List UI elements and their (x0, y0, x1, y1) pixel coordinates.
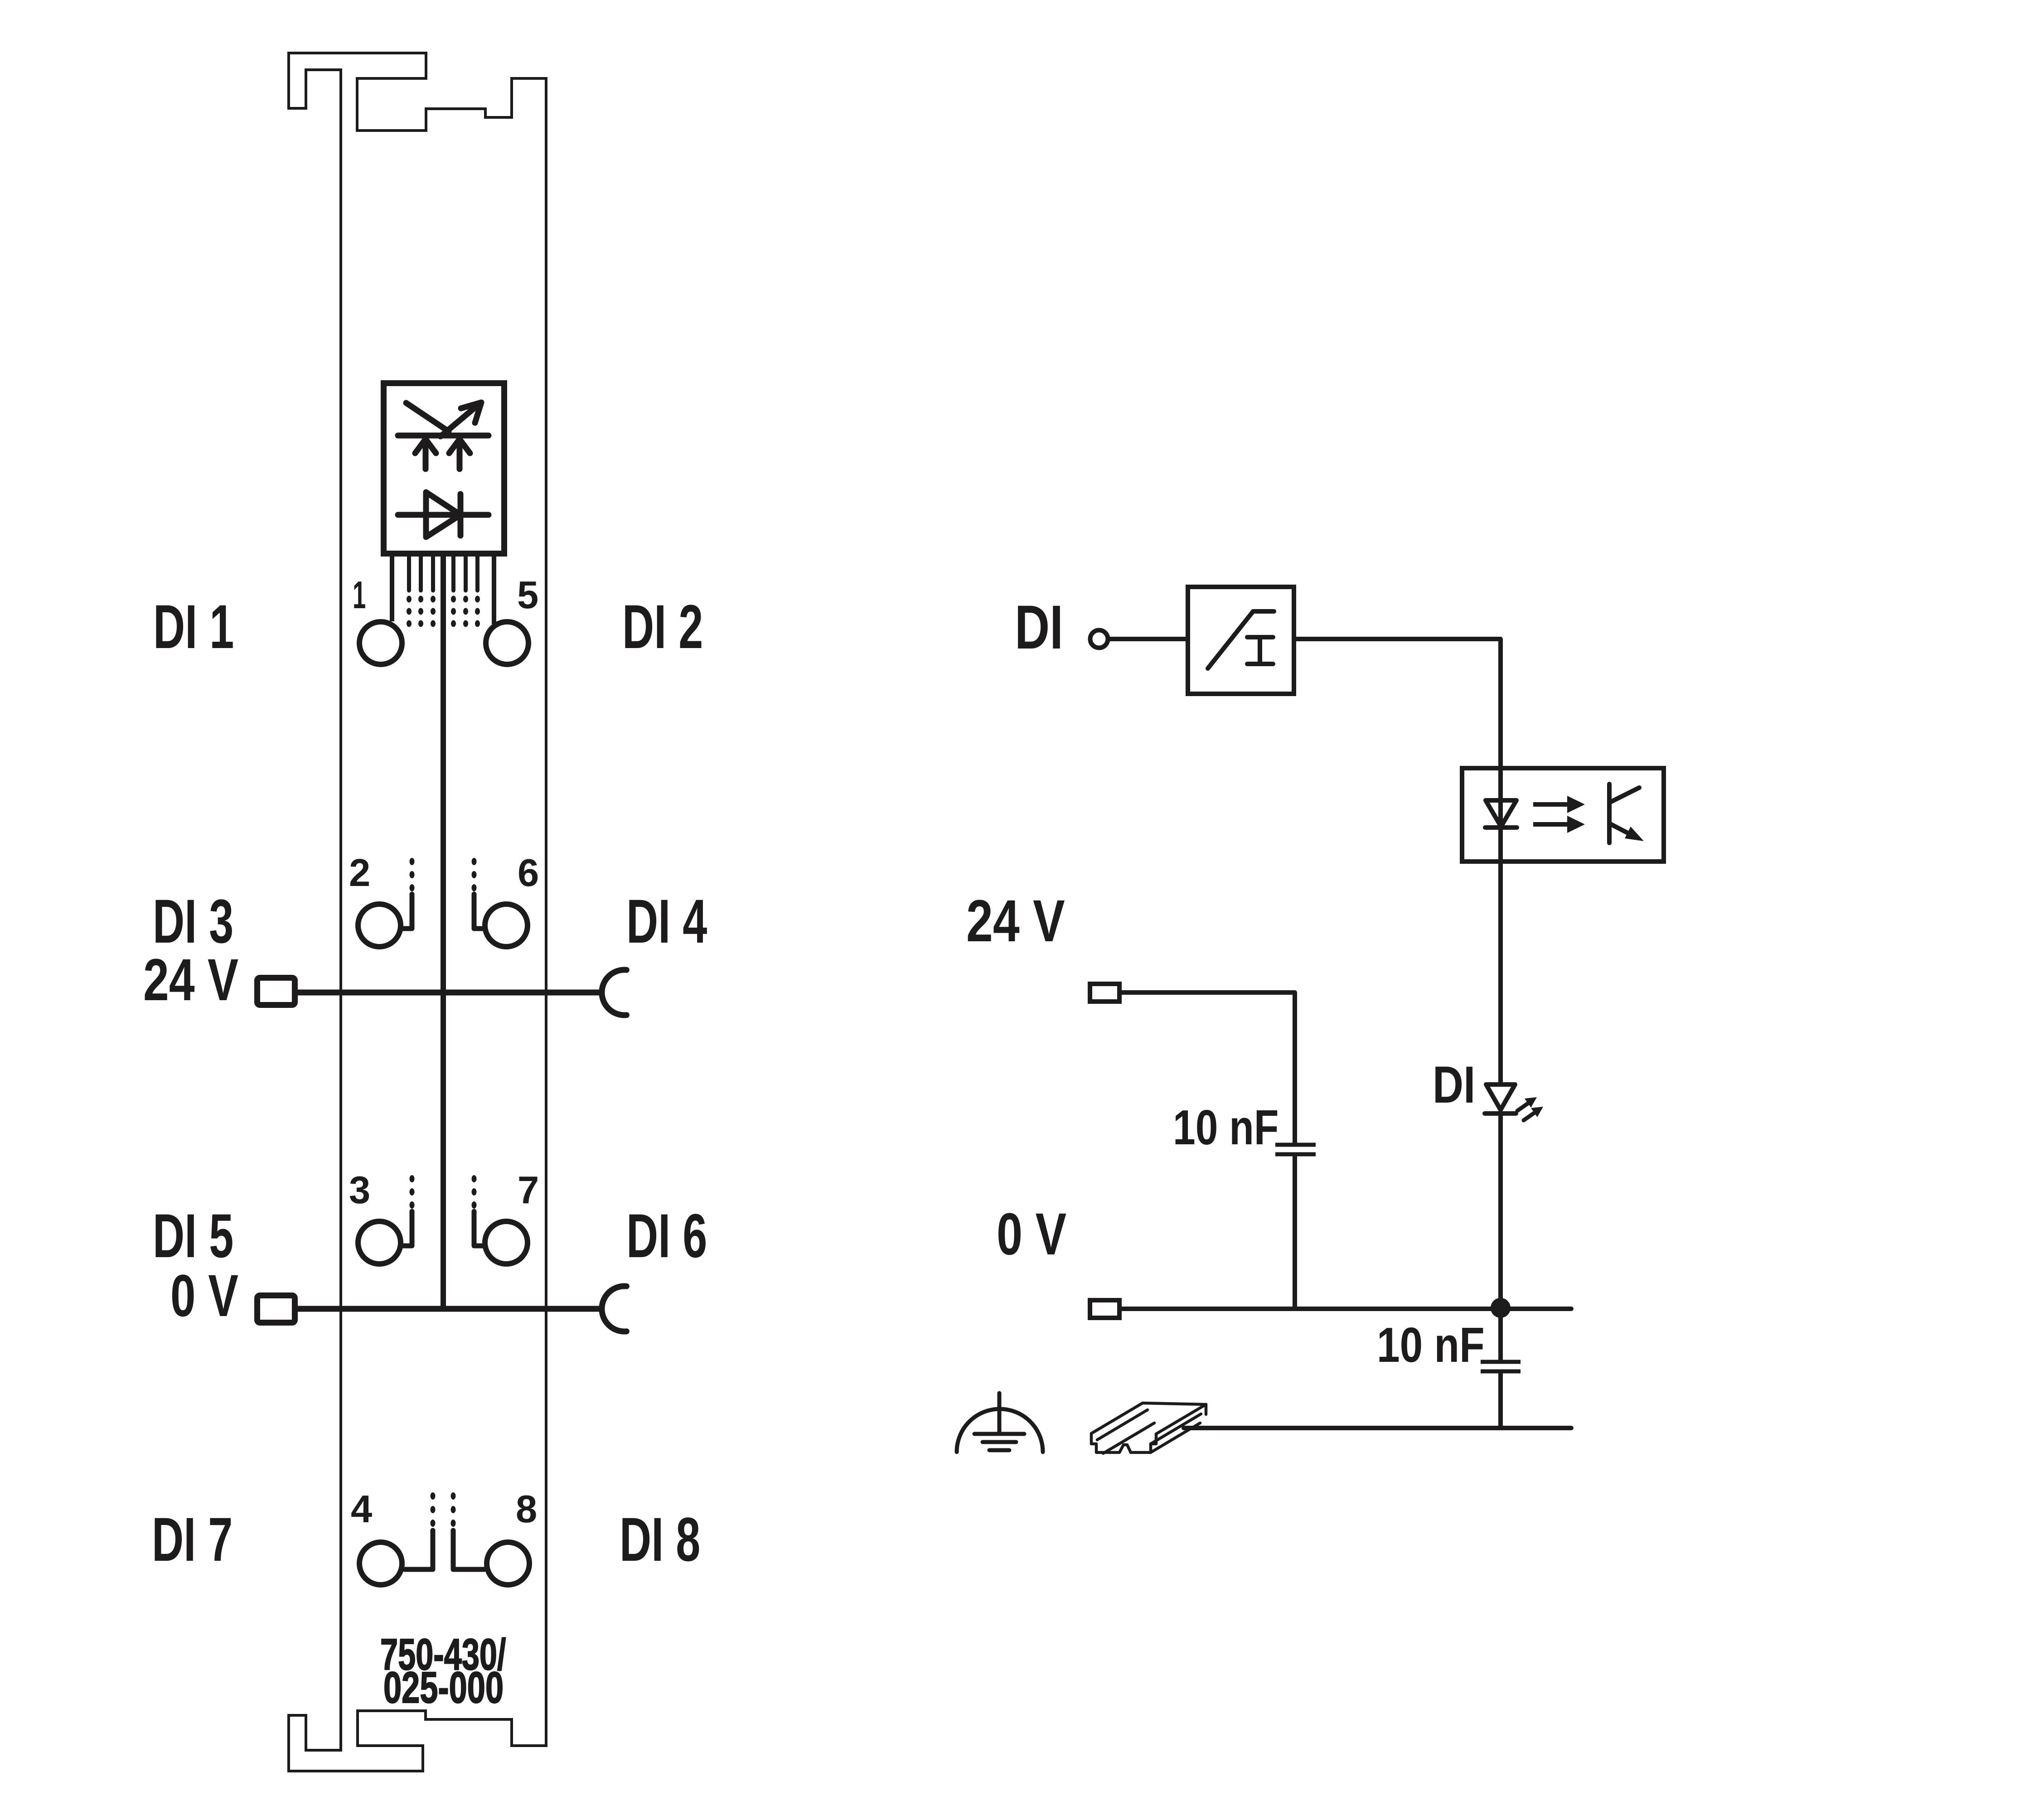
opto phototransistor emitter with arrow (1610, 824, 1634, 836)
svg-text:025-000: 025-000 (383, 1664, 504, 1713)
U1 comb dotted continuation (407, 596, 480, 627)
contact 7 stub wire (474, 1211, 484, 1246)
opto phototransistor collector (1610, 788, 1639, 802)
capacitor C1 lower lead (1293, 1156, 1297, 1309)
svg-text:6: 6 (518, 852, 539, 895)
DI 6 socket arc (602, 1286, 626, 1331)
U1 comb lead 1 (407, 557, 411, 591)
contact 2 circle (358, 904, 401, 947)
U1 comb lead 6 (475, 557, 479, 591)
capacitor C2 10nF plates (1481, 1362, 1521, 1371)
contact 7 circle (485, 1221, 528, 1264)
svg-text:2: 2 (349, 852, 370, 895)
svg-text:DI 4: DI 4 (626, 887, 707, 956)
contact 2 stub wire (402, 894, 412, 929)
svg-text:DI 7: DI 7 (152, 1505, 232, 1574)
indicator LED light arrow 2 (1524, 1111, 1537, 1120)
contact 8 stub wire (453, 1530, 484, 1569)
opto light arrow upper (1533, 796, 1585, 813)
surge suppressor diagonal segment (406, 403, 449, 431)
svg-text:10 nF: 10 nF (1377, 1317, 1485, 1373)
24V field terminal pad (257, 978, 295, 1005)
contact 4 dotted wire (431, 1492, 436, 1527)
junction node (1491, 1298, 1511, 1318)
opto-coupler block U1 (384, 383, 504, 554)
contact 6 circle (485, 904, 528, 947)
0V rail wire (1119, 1307, 1571, 1311)
surge suppressor right up-arrow (449, 439, 470, 469)
svg-text:0 V: 0 V (997, 1200, 1066, 1267)
svg-text:5: 5 (517, 574, 538, 617)
diode D1 cathode bar (458, 494, 464, 536)
indicator LED DI triangle (1486, 1084, 1515, 1110)
svg-text:DI: DI (1433, 1056, 1475, 1114)
diode D1 bar line (398, 512, 489, 518)
opto LED cathode bar (1485, 825, 1517, 830)
opto LED triangle (1486, 800, 1516, 827)
capacitor C1 10nF plates (1275, 1145, 1316, 1154)
svg-text:24 V: 24 V (143, 947, 238, 1013)
contact 7 dotted wire (472, 1175, 477, 1209)
opto light arrow lower (1533, 816, 1585, 833)
0V field terminal pad (257, 1296, 295, 1323)
capacitor C2 lower lead (1498, 1373, 1503, 1428)
svg-text:DI 2: DI 2 (622, 592, 703, 662)
svg-text:4: 4 (351, 1488, 372, 1531)
wire DI terminal to filter (1110, 637, 1186, 641)
svg-text:DI 1: DI 1 (153, 592, 234, 662)
svg-text:8: 8 (516, 1488, 537, 1531)
surge suppressor breakover arrow head (461, 402, 481, 423)
wire from U1 to contact 1 (390, 557, 394, 621)
svg-text:DI 6: DI 6 (626, 1201, 707, 1271)
module outline 750-430 bus terminal body (289, 53, 546, 1771)
filter ramp symbol (1208, 611, 1274, 668)
24V terminal pad (right) (1090, 984, 1119, 1002)
internal bus wire (center) (441, 557, 446, 1312)
contact 4 circle (359, 1542, 402, 1585)
contact 5 circle (486, 622, 528, 664)
indicator LED DI cathode bar (1485, 1111, 1516, 1116)
0V terminal pad (right) (1090, 1300, 1119, 1318)
contact 3 dotted wire (410, 1175, 415, 1209)
24V wire to capacitor (1119, 992, 1295, 1143)
svg-text:1: 1 (353, 573, 366, 616)
svg-text:DI: DI (1015, 593, 1063, 662)
svg-text:7: 7 (518, 1169, 539, 1212)
24V power rail wire (298, 990, 602, 996)
U1 comb lead 5 (464, 557, 468, 591)
DI 4 socket arc (602, 970, 626, 1015)
earth ground symbol (957, 1409, 1043, 1452)
contact 3 circle (358, 1221, 401, 1264)
surge suppressor symbol bar (398, 433, 489, 439)
svg-text:0 V: 0 V (170, 1263, 238, 1329)
svg-text:DI 8: DI 8 (620, 1505, 700, 1574)
0V power rail wire (298, 1306, 602, 1312)
wire filter to opto-coupler (1296, 639, 1501, 766)
svg-text:24 V: 24 V (966, 888, 1065, 954)
opto-coupler block (1462, 768, 1664, 862)
wire LED to 0V junction (1498, 1114, 1503, 1360)
svg-text:DI 3: DI 3 (153, 887, 233, 956)
DIN rail 3D symbol (1091, 1403, 1206, 1453)
opto phototransistor base bar (1607, 784, 1612, 843)
wire from U1 to contact 5 (492, 557, 496, 624)
svg-text:3: 3 (349, 1169, 370, 1212)
indicator LED light arrow 1 (1517, 1101, 1531, 1111)
input filter block (1188, 587, 1294, 694)
U1 comb lead 4 (451, 557, 455, 591)
U1 comb lead 2 (419, 557, 423, 591)
filter I symbol (1247, 637, 1273, 664)
contact 8 dotted wire (451, 1492, 456, 1527)
functional earth line (1184, 1426, 1571, 1430)
contact 2 dotted wire (410, 858, 415, 891)
contact 6 dotted wire (472, 858, 477, 891)
surge suppressor breakover arrow shaft (441, 408, 474, 436)
svg-text:DI 5: DI 5 (153, 1201, 233, 1271)
contact 1 circle (359, 622, 402, 664)
U1 comb lead 3 (431, 557, 435, 591)
svg-text:10 nF: 10 nF (1173, 1100, 1279, 1155)
contact 8 circle (487, 1542, 529, 1585)
diode D1 triangle (426, 492, 460, 537)
surge suppressor left up-arrow (415, 439, 436, 469)
opto LED wire through block (1498, 766, 1503, 1084)
DI input terminal circle (1090, 630, 1108, 648)
contact 3 stub wire (402, 1211, 412, 1246)
contact 6 stub wire (474, 894, 484, 929)
contact 4 stub wire (405, 1530, 433, 1569)
